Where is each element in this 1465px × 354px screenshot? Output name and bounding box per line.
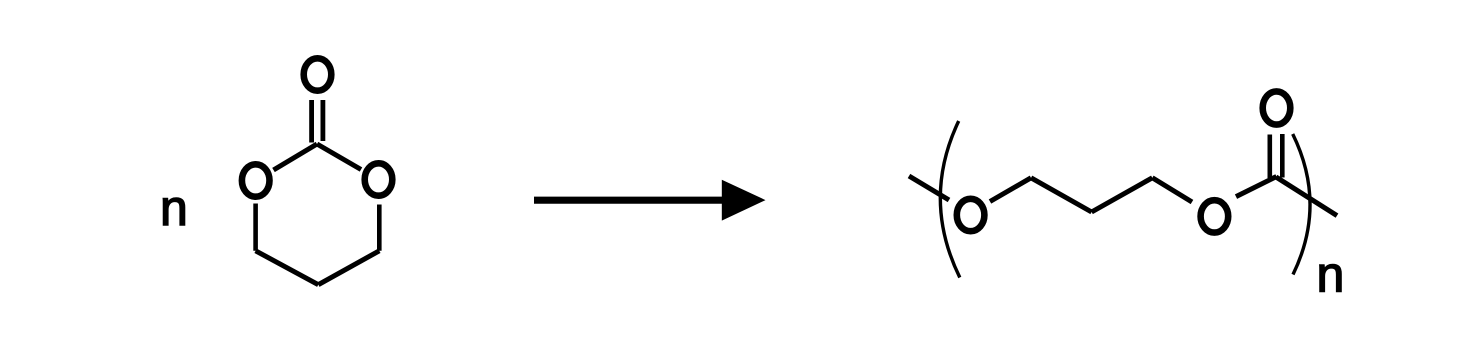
bond O-CH2 (polymer, left) [990,178,1031,202]
ether O (polymer backbone, left) [957,199,985,231]
bond C6-C5 (monomer) [256,251,319,285]
bond CH2-CH2 (polymer, left) [1031,178,1092,212]
bond CH2-CH2 (polymer, right) [1092,178,1153,212]
bond O3-C4 (monomer) [377,205,382,251]
right parenthesis [1293,134,1310,275]
left chain-end bond (polymer) [909,176,949,200]
bond C2-O3 (monomer) [317,144,361,170]
carbonyl O (polymer C=O oxygen) [1263,91,1291,124]
bond C2-O1 (monomer) [274,144,318,170]
svg-text:n: n [160,180,188,236]
double bond C=O (polymer) [1270,134,1283,178]
bond O-C carbonyl (polymer) [1236,177,1277,197]
double bond C=O (monomer) [312,100,323,143]
carbonyl O (monomer C=O oxygen) [304,58,332,90]
bond O1-C6 (monomer) [253,204,258,251]
ring O3 (monomer right oxygen) [365,163,393,195]
right chain-end bond (polymer) [1276,177,1337,216]
ring O1 (monomer left oxygen) [242,164,270,196]
ester O (polymer backbone, right) [1201,200,1229,232]
left parenthesis [940,121,959,278]
svg-text:n: n [1317,247,1345,303]
bond CH2-O (polymer, right) [1152,178,1192,202]
reaction arrow [534,197,728,204]
bond C4-C5 (monomer) [318,251,379,285]
